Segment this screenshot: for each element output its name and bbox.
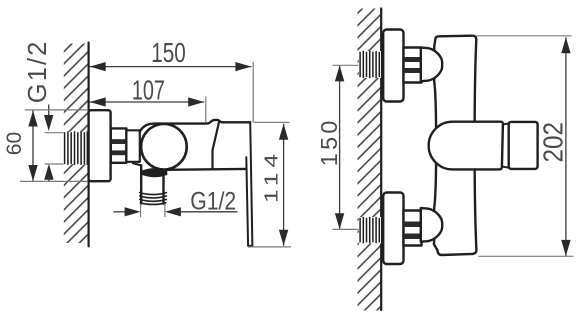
- svg-text:107: 107: [132, 75, 165, 106]
- dimension 107 left: [90, 75, 205, 107]
- top flange right: [383, 30, 403, 102]
- centerline bottom pipe: [333, 228, 359, 230]
- dimension 202: [538, 37, 571, 256]
- svg-text:114: 114: [260, 154, 281, 203]
- outlet right edge: [162, 176, 164, 204]
- extension lines flange top/bottom: [25, 109, 88, 111]
- extension lines outlet sides: [140, 204, 142, 217]
- housing left bottom step: [133, 163, 141, 165]
- svg-text:150: 150: [151, 37, 186, 68]
- valve body circle: [141, 124, 187, 170]
- dimension G1/2 bottom (outlet): [114, 189, 238, 217]
- housing bottom edge: [166, 168, 246, 171]
- svg-text:G1/2: G1/2: [24, 42, 52, 104]
- connector piece left: [126, 130, 139, 162]
- outlet left edge: [140, 165, 142, 203]
- lever neck: [502, 123, 509, 167]
- extension lines thread top/bottom: [45, 132, 64, 134]
- dimension 114: [260, 124, 288, 246]
- dimension 150 right: [316, 65, 345, 229]
- lever blade outer edge: [246, 122, 252, 246]
- top thread right: [359, 51, 381, 78]
- extension line body top: [477, 35, 572, 37]
- dimension 60 left: [2, 111, 38, 182]
- svg-text:202: 202: [538, 122, 569, 163]
- wall surface line left: [87, 43, 89, 247]
- top hex nut right: [404, 48, 422, 83]
- extension line body bottom: [479, 255, 574, 257]
- body right diagram: [434, 36, 477, 255]
- bottom flange right: [383, 193, 403, 265]
- bottom dome connector right: [421, 208, 442, 242]
- hex nut left: [111, 128, 127, 162]
- bottom thread right: [359, 217, 381, 244]
- centerline top pipe: [333, 64, 359, 66]
- flange (escutcheon) left: [89, 110, 111, 181]
- svg-text:G1/2: G1/2: [190, 189, 236, 216]
- wall hatch right: [358, 9, 382, 311]
- top dome connector right: [421, 48, 442, 82]
- wall thread left (pipe through wall): [64, 132, 89, 164]
- wall surface line right: [380, 9, 382, 311]
- extension line for 107 at body: [205, 97, 207, 123]
- dimension 150 left: [90, 37, 252, 71]
- extension line for 150 at lever: [252, 62, 254, 122]
- svg-text:60: 60: [2, 132, 26, 156]
- housing top edge with bump to lever: [140, 120, 250, 131]
- wall hatch left: [64, 44, 88, 244]
- leader G1/2 top with arrows: [44, 105, 54, 182]
- lever knob: [509, 122, 538, 169]
- lever front slant edge: [213, 121, 220, 169]
- bottom hex nut right: [404, 211, 422, 246]
- outlet thread ridges: [140, 193, 167, 205]
- extension lines for 114: [254, 121, 290, 123]
- outlet joint band (dark): [143, 169, 166, 176]
- lever capsule right: [429, 122, 503, 170]
- svg-text:150: 150: [316, 121, 342, 167]
